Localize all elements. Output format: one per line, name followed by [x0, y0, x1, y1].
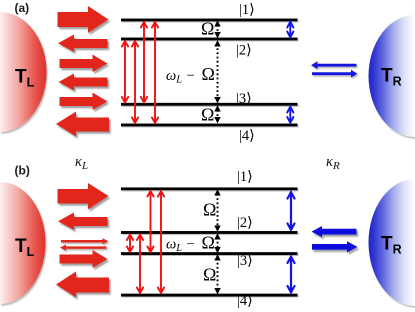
red transition arrow 2-4 (panel b) [137, 235, 143, 293]
svg-text:|1⟩: |1⟩ [237, 169, 253, 185]
thin red arrow left (panel b) [60, 245, 107, 251]
red block arrow 2 left (panel b) [58, 213, 108, 231]
cold bath T_R (panel b) [369, 179, 415, 306]
svg-text:|2⟩: |2⟩ [236, 43, 252, 59]
svg-text:|4⟩: |4⟩ [237, 293, 253, 309]
blue transition arrow 3-4 (panel a) [287, 107, 293, 123]
red block arrow 3 right (panel a) [60, 55, 108, 73]
red transition arrow 1-3 (panel b) [147, 191, 153, 252]
energy level |1> line (panel b) [121, 187, 298, 190]
svg-text:κL: κL [75, 154, 88, 172]
blue transition arrow 1-2 (panel a) [287, 22, 293, 37]
energy level |1> line (panel a) [121, 19, 298, 22]
svg-text:Ω: Ω [203, 265, 216, 285]
svg-text:|3⟩: |3⟩ [236, 91, 252, 107]
thin blue arrow right (panel a, to bath R) [312, 70, 358, 78]
cold bath T_R (panel a) [369, 15, 415, 137]
red block arrow 4 right (panel b) [60, 250, 108, 268]
thin blue arrow left (panel a, to bath R) [311, 61, 357, 69]
red transition arrow 1-4 (panel b) [158, 191, 164, 293]
red block arrow 4 left (panel a) [59, 74, 108, 91]
dotted arrow 3-4 (panel a) [215, 106, 220, 122]
dotted arrow 1-2 (panel a) [215, 21, 220, 37]
red block arrow 5 big left (panel b) [56, 272, 109, 298]
red transition arrow 2-4 (panel a) [132, 41, 138, 123]
red block arrow 1 big right (panel b) [58, 183, 109, 210]
red transition arrow 1-3 (panel a) [141, 22, 147, 102]
svg-text:|3⟩: |3⟩ [237, 253, 253, 269]
svg-text:Ω: Ω [201, 104, 214, 124]
blue block arrow right (panel b, to bath R) [312, 241, 358, 252]
svg-text:|1⟩: |1⟩ [239, 2, 255, 18]
thin red arrow right (panel b) [61, 238, 109, 244]
svg-text:Ω: Ω [203, 200, 216, 220]
svg-text:(b): (b) [15, 164, 30, 178]
energy level |4> line (panel b) [121, 294, 298, 297]
hot bath T_L (panel b) [0, 182, 46, 304]
energy level |4> line (panel a) [121, 124, 298, 127]
hot bath T_L (panel a) [0, 12, 47, 132]
energy level |3> line (panel b) [121, 252, 298, 255]
svg-text:|4⟩: |4⟩ [239, 128, 255, 144]
red block arrow 1 right (panel a) [58, 6, 109, 33]
svg-text:ωL−Ω: ωL−Ω [166, 232, 215, 254]
energy level |2> line (panel a) [121, 38, 298, 41]
blue transition arrow 1-2 (panel b) [288, 192, 295, 230]
red block arrow 6 big left (panel a) [56, 112, 109, 137]
svg-text:(a): (a) [15, 1, 30, 15]
svg-text:|2⟩: |2⟩ [237, 215, 253, 231]
red transition arrow 1-4 (panel a) [152, 22, 158, 123]
blue transition arrow 3-4 (panel b) [288, 257, 295, 293]
svg-text:κR: κR [326, 154, 340, 172]
red transition arrow 2-3 (panel a) [122, 41, 128, 102]
energy level |2> line (panel b) [121, 231, 298, 234]
blue block arrow left (panel b, to bath R) [312, 226, 357, 237]
svg-text:Ω: Ω [201, 19, 214, 39]
red transition arrow 2-3 (panel b) [127, 235, 133, 252]
energy level |3> line (panel a) [121, 103, 298, 106]
dotted arrow 2-3 (panel b) [215, 234, 220, 252]
red block arrow 2 left (panel a) [58, 35, 108, 53]
dotted arrow 3-4 (panel b) [215, 255, 220, 293]
red block arrow 5 right (panel a) [60, 93, 108, 111]
dotted arrow 2-3 (panel a) [215, 41, 220, 102]
svg-text:ωL−Ω: ωL−Ω [166, 64, 215, 86]
dotted arrow 1-2 (panel b) [215, 190, 220, 231]
